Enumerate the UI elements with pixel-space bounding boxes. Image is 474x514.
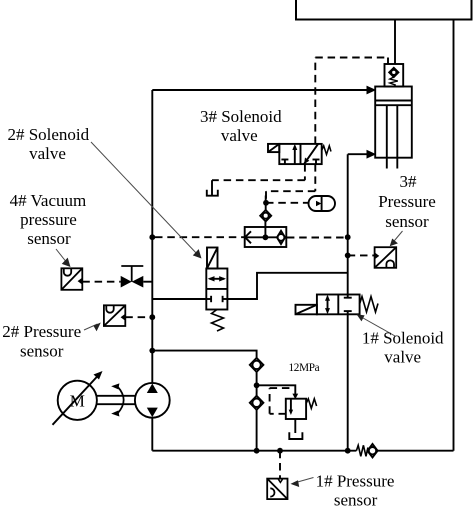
svg-text:sensor: sensor — [334, 491, 378, 510]
svg-text:1# Pressure: 1# Pressure — [316, 471, 395, 490]
svg-text:3#: 3# — [400, 172, 418, 191]
svg-text:valve: valve — [384, 348, 421, 367]
svg-text:valve: valve — [221, 126, 258, 145]
svg-text:M: M — [70, 392, 85, 411]
svg-text:pressure: pressure — [20, 210, 77, 229]
svg-text:sensor: sensor — [27, 229, 71, 248]
svg-text:Pressure: Pressure — [378, 192, 436, 211]
svg-text:sensor: sensor — [385, 212, 429, 231]
svg-text:12MPa: 12MPa — [289, 362, 320, 374]
svg-text:1# Solenoid: 1# Solenoid — [362, 329, 444, 348]
svg-text:2# Solenoid: 2# Solenoid — [7, 125, 89, 144]
svg-text:sensor: sensor — [20, 342, 64, 361]
svg-text:2# Pressure: 2# Pressure — [2, 322, 81, 341]
svg-text:valve: valve — [29, 144, 66, 163]
svg-text:4# Vacuum: 4# Vacuum — [10, 191, 87, 210]
svg-text:3# Solenoid: 3# Solenoid — [200, 107, 282, 126]
